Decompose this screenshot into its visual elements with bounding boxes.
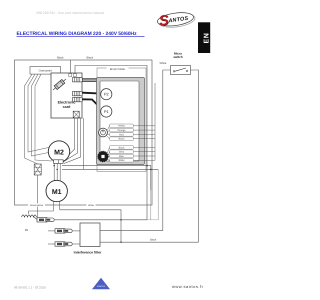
svg-text:#98 290 EN - Use and maintenan: #98 290 EN - Use and maintenance manual [36, 11, 104, 15]
enclosure frame [15, 60, 153, 205]
card bottom wire 1 [63, 118, 75, 161]
connector block J2 on card [73, 91, 83, 95]
wire M2 to right bus b [62, 168, 158, 170]
interference filter FL1 [80, 223, 100, 247]
connector block J3 on card [73, 97, 83, 101]
svg-text:P2: P2 [104, 93, 109, 97]
connector block J1 on card [73, 78, 83, 82]
push button P1 [101, 106, 112, 117]
ribbon wire 1 [25, 74, 38, 164]
svg-text:White: White [160, 62, 167, 65]
svg-text:White: White [118, 159, 125, 162]
thick wire to button P1 [82, 99, 101, 108]
junction [120, 241, 122, 243]
junction [146, 165, 148, 167]
M1 right lead white [59, 201, 61, 210]
motor M1 [46, 180, 67, 201]
switch left wire [100, 70, 171, 230]
thermal fuse F1 (diagonal on card) [52, 77, 68, 91]
svg-text:P1: P1 [104, 110, 109, 114]
M1 left lead green/yellow [29, 201, 54, 214]
micro switch SW1 [171, 66, 191, 75]
card pin marks [69, 74, 72, 77]
svg-text:www.santos.fr: www.santos.fr [172, 284, 204, 289]
X1 down wire [37, 175, 39, 220]
speed knob S2 [98, 151, 108, 161]
Santos logo ellipse [156, 9, 196, 30]
thick wire bundle to panel [82, 78, 99, 80]
label Green/yellow [28, 203, 45, 206]
card bottom wire 3 [64, 118, 81, 164]
svg-text:SANTOS: SANTOS [97, 285, 106, 288]
inline connector X1 [34, 164, 41, 175]
card bottom connector J4 [73, 111, 79, 118]
bottom black wire [100, 241, 199, 243]
brush holder box [97, 68, 146, 172]
card wire B black [75, 66, 147, 220]
EN language tab [198, 22, 210, 53]
ribbon wire 3 [32, 74, 49, 156]
svg-text:Black: Black [87, 57, 94, 60]
push button P2 [101, 89, 112, 100]
junction [120, 219, 122, 221]
mains connector row 3 [48, 242, 72, 246]
S1 wire labels [110, 124, 134, 141]
svg-text:Orange: Orange [118, 129, 127, 132]
svg-text:Black: Black [150, 238, 157, 241]
S2 wire labels [110, 146, 134, 163]
electronic card U1 [51, 73, 82, 118]
svg-text:M2: M2 [54, 149, 64, 156]
wires M2 to M1 [53, 163, 55, 180]
junction [56, 169, 58, 171]
svg-text:Black: Black [119, 138, 126, 141]
M2 terminal block [54, 160, 64, 164]
control panel frame [97, 78, 145, 165]
svg-text:Ph: Ph [25, 229, 29, 232]
svg-text:Overspeed: Overspeed [39, 70, 53, 73]
overspeed connector box [30, 67, 61, 75]
svg-text:card: card [63, 105, 72, 109]
svg-text:Grey: Grey [119, 151, 125, 154]
mains connector row 2 [48, 229, 72, 233]
svg-text:Green/yellow: Green/yellow [30, 204, 44, 207]
label White [87, 203, 96, 206]
svg-text:M1: M1 [52, 189, 62, 196]
thick wire to button P2 [82, 93, 101, 94]
svg-text:Blue: Blue [119, 155, 124, 158]
switch right wire [190, 70, 198, 242]
wire M2 to right bus a [62, 166, 151, 190]
footer logo triangle [92, 278, 110, 289]
svg-text:Yellow: Yellow [118, 125, 125, 128]
row1 wire to bus [54, 219, 147, 221]
row3 wire to filter [72, 243, 80, 245]
svg-text:Red: Red [119, 133, 124, 136]
earth symbol [22, 215, 37, 217]
svg-text:Black: Black [119, 146, 126, 149]
junction [150, 169, 152, 171]
svg-text:switch: switch [173, 55, 183, 59]
S2 label wires [107, 147, 110, 153]
mains connector row 1 [37, 218, 54, 222]
ribbon wire 4 [35, 74, 52, 161]
card wire A black [69, 60, 71, 73]
row2 wire to filter [72, 230, 80, 232]
svg-text:ELECTRICAL WIRING DIAGRAM 220: ELECTRICAL WIRING DIAGRAM 220 - 240V 50/… [17, 31, 138, 37]
motor M2 [48, 141, 69, 162]
card bottom wire 2 [63, 118, 78, 162]
junction [53, 165, 55, 167]
wire right bus extra [154, 83, 156, 160]
svg-text:EN: EN [203, 33, 210, 44]
svg-text:Interference filter: Interference filter [74, 251, 102, 255]
svg-text:Brush holder: Brush holder [110, 68, 125, 71]
selector knob S1 (power) [99, 128, 108, 137]
svg-text:98 90 601 1 1 - 03 2016: 98 90 601 1 1 - 03 2016 [14, 286, 46, 290]
S1 label wires [107, 126, 109, 130]
svg-text:Black: Black [57, 57, 64, 60]
svg-text:White: White [88, 204, 95, 207]
ribbon wire 2 [28, 74, 49, 152]
M1 white wire horizontal [60, 210, 121, 242]
card bottom wire 4 [82, 118, 84, 169]
